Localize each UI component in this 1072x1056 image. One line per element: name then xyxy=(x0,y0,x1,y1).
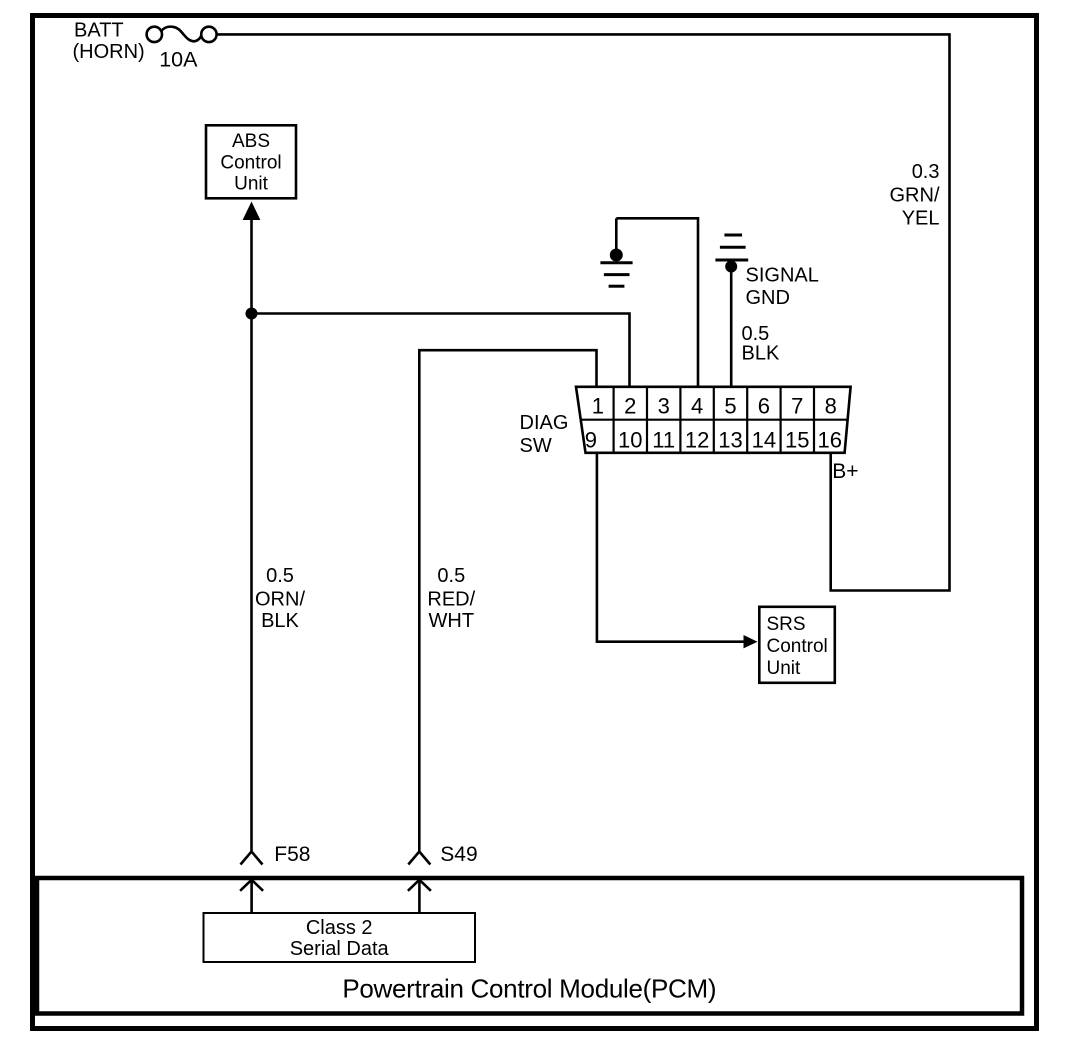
arrow into F58 xyxy=(240,880,263,913)
svg-text:12: 12 xyxy=(685,428,709,453)
connector S49 chevron xyxy=(408,852,430,865)
SRS control unit box xyxy=(759,607,835,683)
svg-text:5: 5 xyxy=(724,394,736,419)
signal ground symbol xyxy=(715,235,748,260)
svg-text:Control: Control xyxy=(767,636,828,657)
connector grid xyxy=(581,387,848,453)
fuse 10A xyxy=(147,27,217,42)
wire RED/WHT from S49 up to pin 1 xyxy=(419,350,596,853)
svg-text:10: 10 xyxy=(618,428,642,453)
arrowhead into ABS xyxy=(243,202,261,221)
svg-text:BLK: BLK xyxy=(261,610,299,632)
wire junction to pin 2 xyxy=(252,314,630,389)
svg-text:Unit: Unit xyxy=(234,174,269,195)
arrowhead into SRS xyxy=(744,635,758,648)
svg-text:4: 4 xyxy=(691,394,703,419)
svg-text:Control: Control xyxy=(220,152,281,173)
svg-text:6: 6 xyxy=(758,394,770,419)
svg-text:0.5: 0.5 xyxy=(437,565,465,587)
ABS control unit box xyxy=(206,125,296,198)
svg-text:(HORN): (HORN) xyxy=(73,41,145,63)
junction node xyxy=(246,308,258,320)
svg-text:YEL: YEL xyxy=(902,208,940,230)
svg-text:10A: 10A xyxy=(159,48,198,72)
svg-text:Class 2: Class 2 xyxy=(306,917,373,939)
svg-text:SIGNAL: SIGNAL xyxy=(746,264,819,286)
wire pin 9 to SRS xyxy=(597,453,745,642)
svg-text:14: 14 xyxy=(752,428,776,453)
connector pin numbers row 1 xyxy=(592,394,837,419)
svg-text:ABS: ABS xyxy=(232,131,270,152)
svg-text:Serial Data: Serial Data xyxy=(290,938,390,960)
svg-text:ORN/: ORN/ xyxy=(255,589,305,611)
svg-text:DIAG: DIAG xyxy=(520,412,569,434)
svg-text:7: 7 xyxy=(791,394,803,419)
svg-text:0.5: 0.5 xyxy=(266,565,294,587)
svg-text:GRN/: GRN/ xyxy=(890,185,940,207)
svg-text:2: 2 xyxy=(624,394,636,419)
svg-text:3: 3 xyxy=(658,394,670,419)
svg-text:8: 8 xyxy=(825,394,837,419)
wire ORN/BLK vertical xyxy=(250,219,253,853)
svg-text:SW: SW xyxy=(520,435,552,457)
svg-text:SRS: SRS xyxy=(767,614,806,635)
svg-text:RED/: RED/ xyxy=(427,589,475,611)
svg-text:Powertrain Control Module(PCM): Powertrain Control Module(PCM) xyxy=(342,973,716,1003)
connector F58 chevron xyxy=(241,852,263,865)
arrow into S49 xyxy=(408,880,431,913)
svg-text:GND: GND xyxy=(746,287,790,309)
svg-text:S49: S49 xyxy=(440,843,477,866)
svg-text:F58: F58 xyxy=(274,843,310,866)
svg-text:WHT: WHT xyxy=(429,610,475,632)
ground symbol (left) xyxy=(600,218,632,286)
svg-text:11: 11 xyxy=(652,428,675,453)
svg-text:16: 16 xyxy=(817,428,841,453)
battery feed label BATT (HORN) xyxy=(73,20,145,64)
Class 2 Serial Data box xyxy=(204,913,476,962)
PCM box xyxy=(37,878,1022,1014)
svg-text:9: 9 xyxy=(585,428,597,453)
svg-text:BATT: BATT xyxy=(74,20,124,42)
svg-text:15: 15 xyxy=(785,428,809,453)
svg-text:13: 13 xyxy=(718,428,742,453)
wire ground to pin 4 xyxy=(616,218,698,388)
svg-text:0.3: 0.3 xyxy=(912,161,940,183)
svg-text:BLK: BLK xyxy=(742,342,780,364)
wire signal ground to pin 5 xyxy=(730,267,733,389)
DLC connector outline xyxy=(576,387,851,453)
svg-text:Unit: Unit xyxy=(767,658,802,679)
svg-text:1: 1 xyxy=(592,394,604,419)
connector pin numbers row 2 xyxy=(585,428,842,453)
wire B+ from fuse along top, down right side, to pin 16 xyxy=(217,34,950,590)
svg-text:B+: B+ xyxy=(832,460,858,483)
